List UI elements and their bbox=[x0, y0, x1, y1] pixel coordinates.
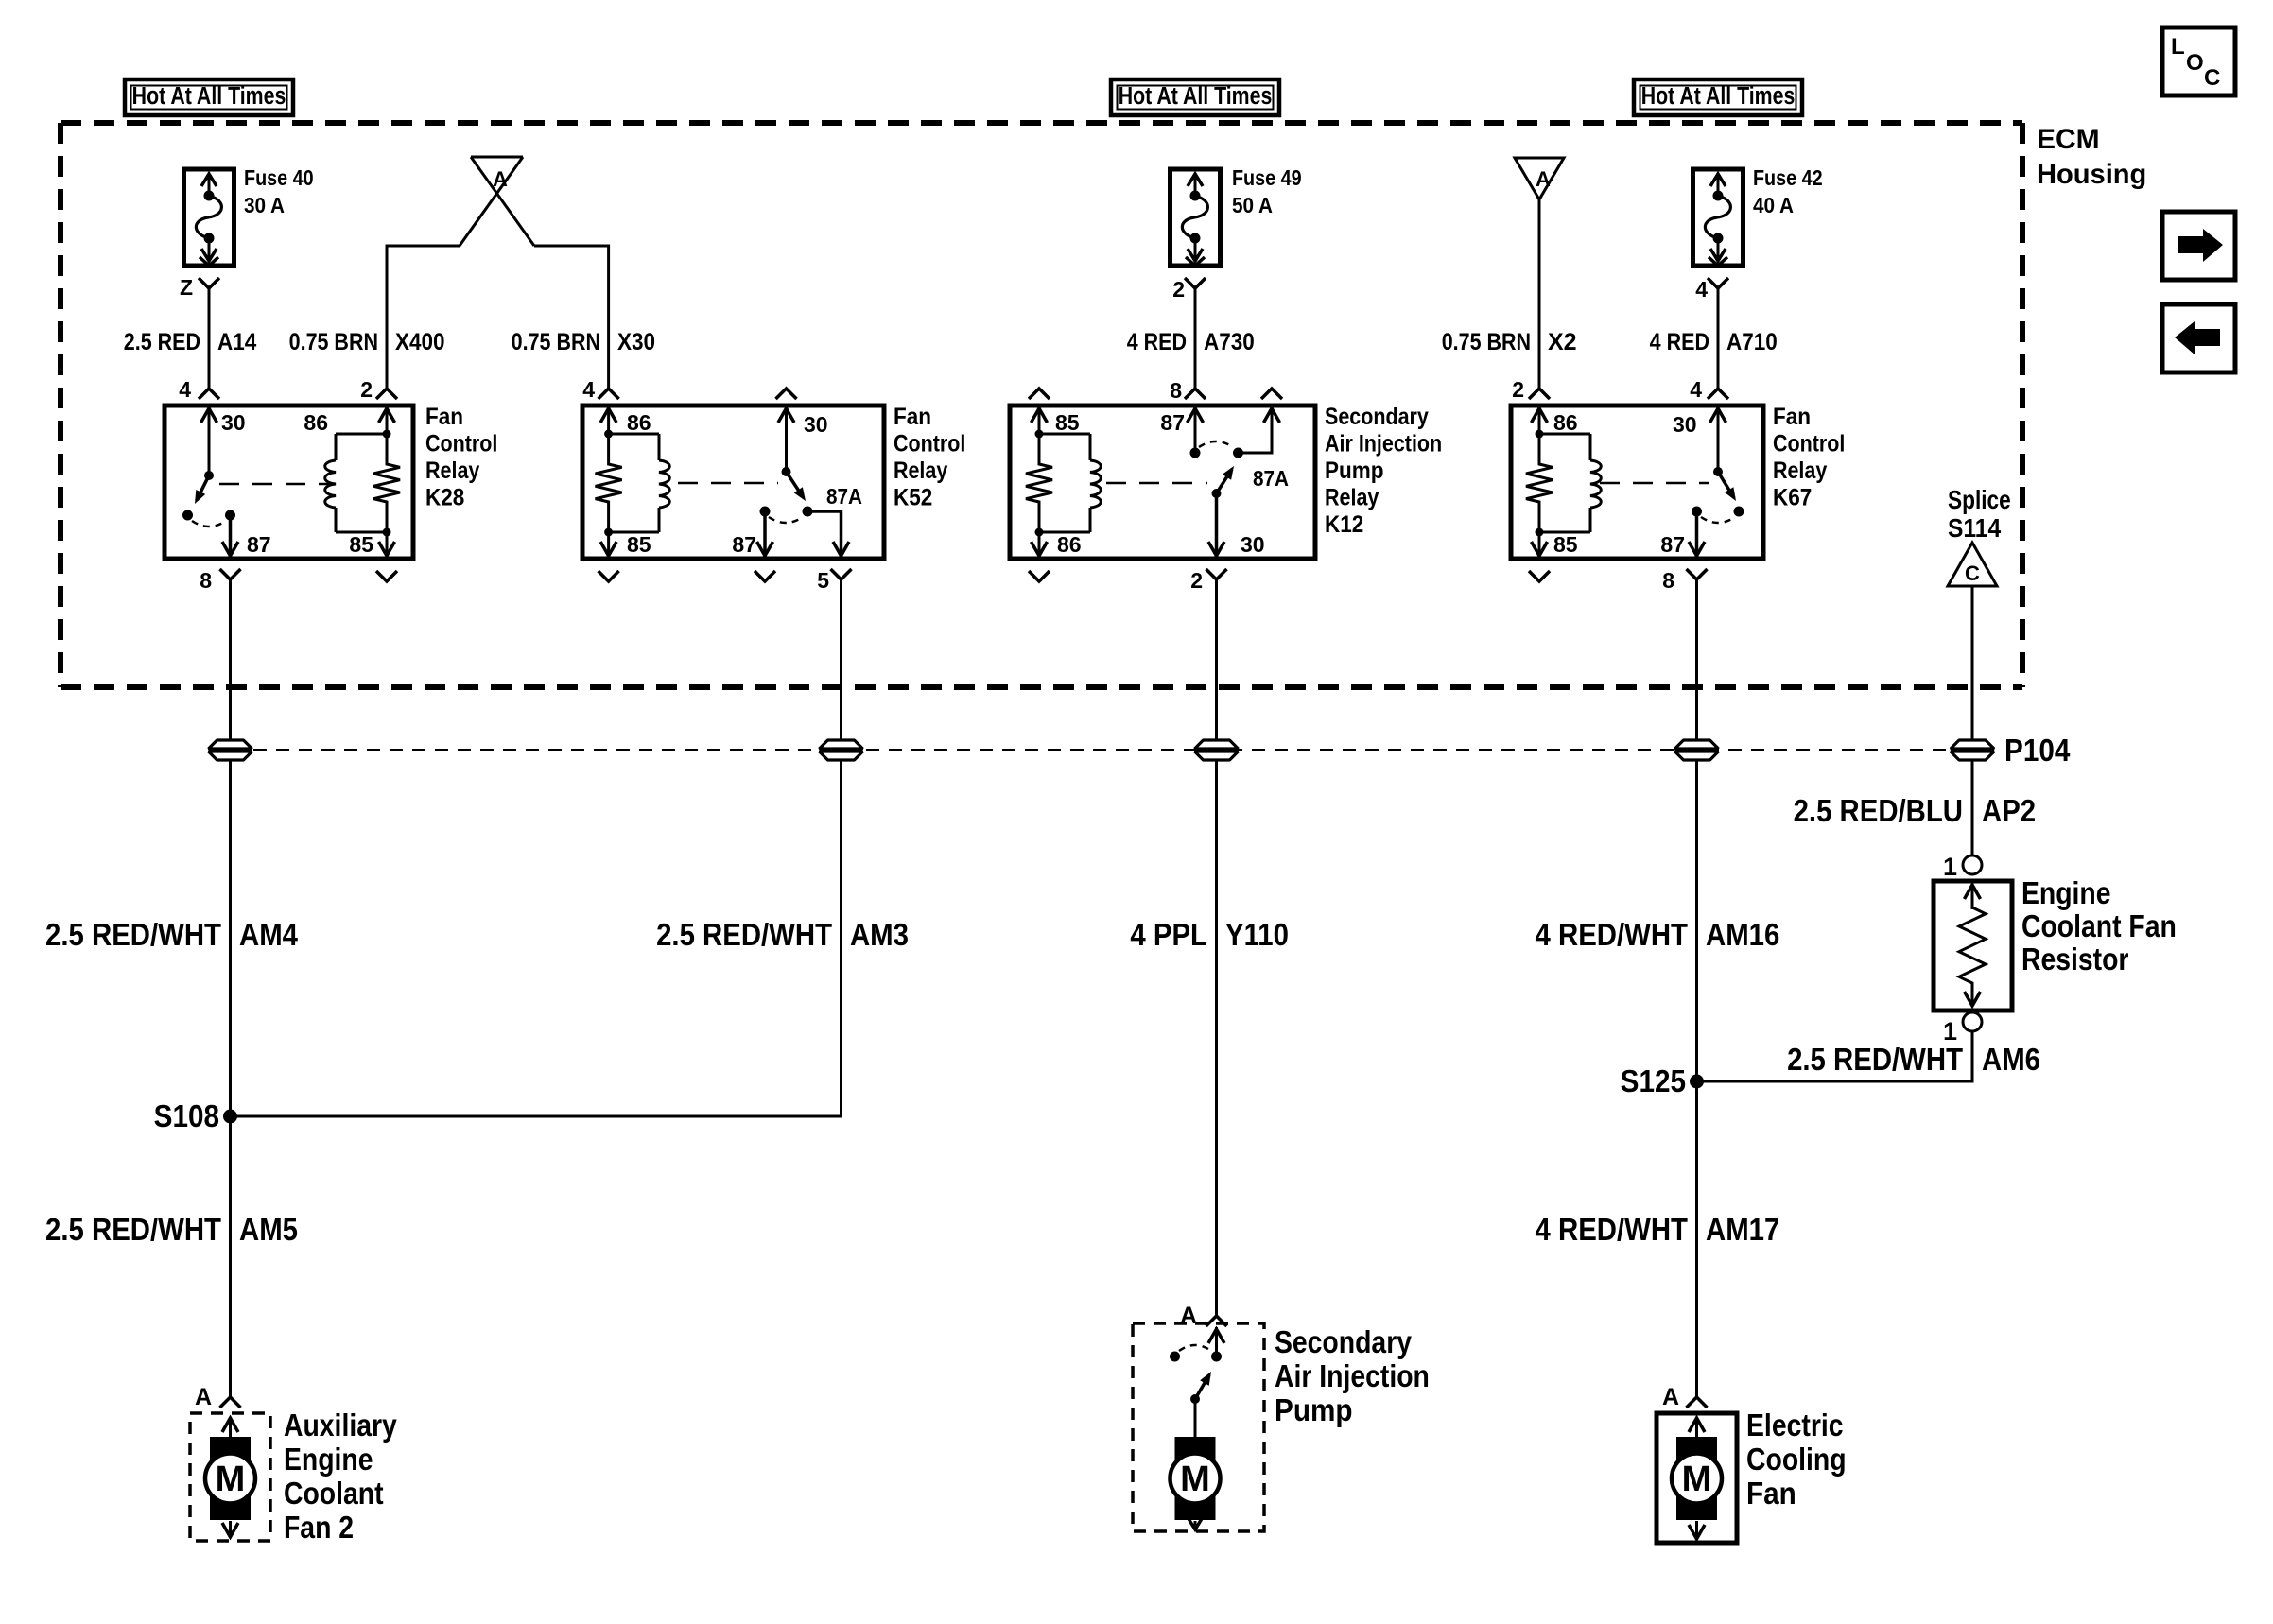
relay K28 coupling dashes bbox=[219, 483, 329, 486]
motor Auxiliary Engine Coolant Fan 2 terminal A bbox=[195, 1384, 241, 1410]
svg-text:Fan: Fan bbox=[1746, 1477, 1796, 1512]
svg-text:Pump: Pump bbox=[1275, 1393, 1352, 1428]
svg-text:Hot At All Times: Hot At All Times bbox=[132, 82, 286, 111]
Secondary Air Injection Pump terminal A bbox=[1180, 1303, 1227, 1329]
wire X30 branch to K52 pin 4 bbox=[534, 246, 609, 388]
svg-text:40 A: 40 A bbox=[1753, 193, 1794, 217]
relay K12 coupling dashes bbox=[1106, 482, 1207, 485]
svg-text:Y110: Y110 bbox=[1225, 917, 1289, 952]
svg-text:50 A: 50 A bbox=[1232, 193, 1273, 217]
splice triangle A (battery feed) with crossing leads bbox=[460, 157, 534, 246]
connector P104 terminal at x=243.5 bbox=[209, 740, 252, 749]
relay K52 switch arm bbox=[787, 472, 804, 498]
svg-text:M: M bbox=[1682, 1460, 1712, 1499]
svg-text:A730: A730 bbox=[1204, 329, 1255, 355]
relay K52 contact 87A output to pin 5 bbox=[807, 484, 862, 559]
connector P104 terminal at x=2086 bbox=[1951, 740, 1994, 749]
relay K28 coil 86 input bbox=[304, 406, 394, 439]
svg-text:87: 87 bbox=[1660, 532, 1685, 557]
relay K67 switch pin 30 bbox=[1673, 406, 1726, 476]
wire X2 to K67 pin 2 bbox=[1538, 199, 1541, 388]
svg-text:M: M bbox=[216, 1460, 246, 1499]
svg-text:AM4: AM4 bbox=[239, 917, 299, 952]
motor Auxiliary Engine Coolant Fan 2 name bbox=[284, 1408, 397, 1546]
svg-text:85: 85 bbox=[1553, 532, 1578, 557]
svg-text:A: A bbox=[1180, 1303, 1197, 1329]
svg-text:Housing: Housing bbox=[2037, 159, 2146, 190]
svg-text:S108: S108 bbox=[154, 1099, 219, 1134]
svg-text:8: 8 bbox=[200, 568, 212, 593]
relay K12 87A link to top terminal bbox=[1239, 406, 1280, 453]
svg-text:Engine: Engine bbox=[2021, 875, 2111, 911]
LOC legend box bbox=[2162, 27, 2235, 95]
svg-text:A: A bbox=[1662, 1384, 1679, 1410]
relay K28 pin 2 terminal bbox=[360, 377, 397, 402]
Secondary Air Injection Pump internal switch bbox=[1170, 1327, 1224, 1404]
relay K12 contact 87 input bbox=[1160, 406, 1203, 458]
relay K28 pin 8 terminal bbox=[200, 568, 240, 593]
svg-text:AM16: AM16 bbox=[1706, 917, 1779, 952]
svg-text:87: 87 bbox=[247, 532, 271, 557]
svg-text:Relay: Relay bbox=[425, 457, 479, 483]
svg-text:P104: P104 bbox=[2004, 734, 2071, 769]
svg-text:C: C bbox=[1965, 561, 1980, 585]
svg-text:4 PPL: 4 PPL bbox=[1130, 917, 1207, 952]
relay K67 contact 87 output bbox=[1660, 511, 1705, 559]
svg-text:Control: Control bbox=[425, 430, 497, 457]
svg-text:30 A: 30 A bbox=[244, 193, 285, 217]
svg-text:M: M bbox=[1180, 1460, 1210, 1499]
svg-text:Auxiliary: Auxiliary bbox=[284, 1408, 397, 1443]
relay K67 Fan Control Relay box bbox=[1511, 406, 1763, 559]
relay K12 pin 8 terminal bbox=[1170, 378, 1206, 403]
svg-text:2.5 RED/WHT: 2.5 RED/WHT bbox=[1787, 1042, 1963, 1077]
relay K52 name label bbox=[894, 404, 965, 511]
relay K52 coupling dashes bbox=[678, 482, 778, 485]
wire S114 down to resistor bbox=[1971, 586, 1974, 855]
right arrow legend box bbox=[2162, 212, 2235, 280]
svg-text:87A: 87A bbox=[1253, 466, 1289, 491]
relay K67 coil 85 output bbox=[1532, 528, 1578, 560]
svg-text:AM5: AM5 bbox=[239, 1212, 298, 1247]
svg-text:30: 30 bbox=[1673, 412, 1697, 437]
svg-text:2.5 RED/WHT: 2.5 RED/WHT bbox=[45, 917, 221, 952]
left arrow legend box bbox=[2162, 304, 2235, 372]
svg-text:86: 86 bbox=[304, 410, 328, 435]
relay K28 Fan Control Relay box bbox=[165, 406, 413, 559]
relay K52 coil 85 output bbox=[600, 528, 651, 560]
svg-text:O: O bbox=[2186, 50, 2204, 76]
svg-text:ECM: ECM bbox=[2037, 124, 2100, 155]
svg-text:Air Injection: Air Injection bbox=[1325, 430, 1442, 457]
svg-text:Relay: Relay bbox=[1773, 457, 1827, 483]
svg-text:Control: Control bbox=[894, 430, 965, 457]
svg-text:85: 85 bbox=[1055, 410, 1080, 435]
svg-text:Fan: Fan bbox=[894, 404, 931, 430]
svg-text:Fan: Fan bbox=[1773, 404, 1811, 430]
relay K28 coil 85 output bbox=[349, 528, 394, 560]
relay K28 switch contacts bbox=[182, 510, 235, 527]
motor Auxiliary Engine Coolant Fan 2 bbox=[190, 1413, 270, 1541]
svg-text:S114: S114 bbox=[1948, 513, 2001, 544]
svg-text:Coolant: Coolant bbox=[284, 1476, 384, 1512]
svg-text:AM6: AM6 bbox=[1982, 1042, 2040, 1077]
relay K52 pin 30 terminal mark bbox=[776, 389, 797, 399]
relay K12 pin 87A terminal mark bbox=[1261, 389, 1282, 399]
fuse Fuse 49 50A bbox=[1171, 166, 1302, 302]
svg-text:Coolant Fan: Coolant Fan bbox=[2021, 908, 2177, 944]
Electric Cooling Fan terminal A bbox=[1662, 1384, 1708, 1410]
relay K67 pin 2 terminal bbox=[1512, 377, 1550, 402]
svg-text:A: A bbox=[1536, 167, 1551, 191]
relay K52 switch pin 30 bbox=[778, 406, 828, 476]
svg-text:5: 5 bbox=[817, 568, 829, 593]
svg-text:AM17: AM17 bbox=[1706, 1212, 1779, 1247]
svg-text:2.5 RED/WHT: 2.5 RED/WHT bbox=[656, 917, 832, 952]
svg-text:X2: X2 bbox=[1548, 329, 1577, 355]
svg-text:Air Injection: Air Injection bbox=[1275, 1358, 1430, 1394]
relay K12 switch pivot 30 bbox=[1208, 489, 1265, 559]
svg-text:Pump: Pump bbox=[1325, 458, 1383, 484]
svg-text:AM3: AM3 bbox=[850, 917, 909, 952]
Hot At All Times label box bbox=[1111, 79, 1279, 115]
svg-text:C: C bbox=[2204, 65, 2220, 91]
svg-text:X400: X400 bbox=[395, 329, 445, 355]
Secondary Air Injection Pump dashed box bbox=[1133, 1323, 1264, 1531]
Secondary Air Injection Pump name bbox=[1275, 1324, 1430, 1427]
fuse Fuse 42 40A bbox=[1693, 166, 1823, 302]
wire fuse42 to K67 pin 4 bbox=[1717, 288, 1720, 388]
svg-text:85: 85 bbox=[627, 532, 651, 557]
splice S108 bbox=[154, 1099, 237, 1134]
connector P104 terminal at x=1794.5 bbox=[1675, 740, 1719, 749]
relay K67 switch contacts bbox=[1692, 507, 1744, 524]
engine coolant fan resistor box bbox=[1934, 881, 2012, 1011]
relay K52 pin 85 terminal mark bbox=[599, 571, 619, 581]
relay K28 pin 85 terminal mark bbox=[376, 571, 397, 581]
relay K12 coil resistor bbox=[1026, 434, 1052, 532]
Hot At All Times label box bbox=[125, 79, 293, 115]
relay K67 pin 85 terminal mark bbox=[1529, 571, 1550, 581]
svg-text:85: 85 bbox=[349, 532, 373, 557]
relay K52 coil 86 input bbox=[600, 406, 651, 439]
svg-text:30: 30 bbox=[1241, 532, 1265, 557]
relay K28 contact 87 output bbox=[222, 515, 271, 559]
svg-text:AP2: AP2 bbox=[1982, 793, 2036, 828]
relay K67 pin 8 terminal bbox=[1662, 568, 1707, 593]
svg-text:Engine: Engine bbox=[284, 1442, 373, 1477]
relay K67 switch arm bbox=[1718, 472, 1734, 498]
relay K67 coil inductor loop bbox=[1539, 434, 1601, 532]
svg-text:K52: K52 bbox=[894, 484, 932, 510]
svg-text:86: 86 bbox=[1057, 532, 1082, 557]
svg-text:Fan 2: Fan 2 bbox=[284, 1510, 354, 1546]
relay K12 switch arm bbox=[1217, 469, 1232, 493]
svg-text:4: 4 bbox=[179, 377, 191, 402]
svg-text:2: 2 bbox=[1172, 277, 1185, 302]
Hot At All Times label box bbox=[1634, 79, 1802, 115]
relay K12 contact 87A bbox=[1199, 441, 1289, 491]
connector P104 dashed line bbox=[231, 749, 1972, 751]
svg-text:4 RED/WHT: 4 RED/WHT bbox=[1536, 1212, 1688, 1247]
relay K52 coil inductor loop bbox=[609, 434, 670, 532]
svg-text:1: 1 bbox=[1943, 1017, 1957, 1045]
wire resistor to S125 bbox=[1697, 1031, 1973, 1081]
svg-text:0.75 BRN: 0.75 BRN bbox=[512, 328, 600, 354]
splice S114 triangle C bbox=[1948, 543, 1997, 586]
engine coolant fan resistor terminal 1 top bbox=[1943, 853, 1982, 881]
svg-text:2: 2 bbox=[1190, 568, 1203, 593]
Electric Cooling Fan name bbox=[1746, 1408, 1847, 1511]
connector P104 terminal at x=1286.5 bbox=[1195, 740, 1239, 749]
svg-text:K12: K12 bbox=[1325, 511, 1363, 538]
svg-text:4: 4 bbox=[582, 377, 595, 402]
svg-text:Control: Control bbox=[1773, 430, 1845, 457]
svg-text:Fuse 42: Fuse 42 bbox=[1753, 166, 1823, 191]
svg-text:4 RED/WHT: 4 RED/WHT bbox=[1536, 917, 1688, 952]
wire fuse49 to K12 pin 8 bbox=[1194, 288, 1197, 388]
splice S125 bbox=[1621, 1064, 1704, 1099]
svg-text:2.5 RED/BLU: 2.5 RED/BLU bbox=[1794, 793, 1963, 828]
svg-text:0.75 BRN: 0.75 BRN bbox=[289, 328, 378, 354]
svg-text:Resistor: Resistor bbox=[2021, 942, 2129, 977]
wire K52 pin5 down to S108 bbox=[231, 579, 842, 1116]
relay K52 coil resistor bbox=[596, 434, 622, 532]
Secondary Air Injection Pump motor bbox=[1171, 1399, 1221, 1529]
splice S114 label bbox=[1948, 486, 2011, 544]
relay K52 switch contacts bbox=[760, 507, 813, 524]
svg-text:2.5 RED: 2.5 RED bbox=[124, 328, 200, 354]
svg-text:Z: Z bbox=[180, 275, 193, 300]
relay K28 switch pin 30 bbox=[201, 406, 246, 480]
relay K12 pin 86 terminal mark bbox=[1029, 571, 1050, 581]
relay K52 contact 87 (no connect) bbox=[732, 511, 772, 559]
relay K28 name label bbox=[425, 404, 497, 511]
relay K12 coil 86 output bbox=[1032, 528, 1082, 560]
svg-text:Fan: Fan bbox=[425, 404, 463, 430]
svg-text:Hot At All Times: Hot At All Times bbox=[1119, 82, 1273, 111]
fuse Fuse 40 30A bbox=[180, 166, 314, 300]
relay K12 coil inductor loop bbox=[1039, 434, 1101, 532]
relay K67 coil 86 input bbox=[1532, 406, 1578, 439]
svg-text:2: 2 bbox=[360, 377, 373, 402]
relay K28 pin 4 terminal bbox=[179, 377, 219, 402]
wire K12 pin2 down to SAI pump bbox=[1215, 579, 1218, 1316]
relay K52 pin 4 terminal bbox=[582, 377, 618, 402]
relay K28 coil inductor loop bbox=[325, 434, 387, 532]
connector P104 terminal at x=889.5 bbox=[820, 740, 863, 749]
svg-text:Splice: Splice bbox=[1948, 486, 2011, 515]
svg-text:8: 8 bbox=[1170, 378, 1182, 403]
svg-text:Hot At All Times: Hot At All Times bbox=[1641, 82, 1796, 111]
svg-text:Fuse 40: Fuse 40 bbox=[244, 166, 314, 191]
svg-text:Fuse 49: Fuse 49 bbox=[1232, 166, 1302, 191]
relay K12 pin 85 terminal mark bbox=[1029, 389, 1050, 399]
engine coolant fan resistor name bbox=[2021, 875, 2177, 977]
relay K67 coupling dashes bbox=[1600, 482, 1709, 485]
wire fuse40 to K28 pin 4 bbox=[208, 288, 211, 388]
svg-text:A14: A14 bbox=[217, 329, 257, 355]
svg-text:S125: S125 bbox=[1621, 1064, 1686, 1099]
svg-text:30: 30 bbox=[804, 412, 828, 437]
svg-text:4 RED: 4 RED bbox=[1650, 328, 1709, 354]
relay K52 pin 5 terminal bbox=[817, 568, 851, 593]
relay K67 name label bbox=[1773, 404, 1845, 511]
svg-text:4 RED: 4 RED bbox=[1127, 328, 1187, 354]
svg-text:87A: 87A bbox=[826, 484, 862, 509]
Electric Cooling Fan motor bbox=[1657, 1413, 1737, 1543]
svg-text:2.5 RED/WHT: 2.5 RED/WHT bbox=[45, 1212, 221, 1247]
svg-text:Relay: Relay bbox=[894, 457, 947, 483]
svg-text:4: 4 bbox=[1695, 277, 1708, 302]
svg-text:Electric: Electric bbox=[1746, 1408, 1844, 1443]
relay K28 switch arm bbox=[197, 475, 209, 500]
relay K12 coil 85 input bbox=[1032, 406, 1080, 439]
wire K28 pin8 down to Aux fan motor bbox=[229, 579, 232, 1397]
relay K12 Secondary Air Injection Pump Relay box bbox=[1010, 406, 1315, 559]
relay K12 name label bbox=[1325, 403, 1442, 538]
engine coolant fan resistor terminal 1 bottom bbox=[1943, 1012, 1982, 1045]
relay K52 pin 87 terminal mark bbox=[755, 571, 775, 581]
svg-text:8: 8 bbox=[1662, 568, 1674, 593]
svg-text:A: A bbox=[195, 1384, 212, 1410]
svg-text:87: 87 bbox=[732, 532, 756, 557]
wire K67 pin8 down to cooling fan bbox=[1695, 579, 1698, 1397]
svg-text:L: L bbox=[2171, 34, 2185, 60]
svg-text:1: 1 bbox=[1943, 853, 1957, 881]
svg-text:4: 4 bbox=[1690, 377, 1702, 402]
svg-text:2: 2 bbox=[1512, 377, 1524, 402]
svg-text:0.75 BRN: 0.75 BRN bbox=[1442, 328, 1531, 354]
svg-text:Cooling: Cooling bbox=[1746, 1442, 1847, 1477]
relay K12 pin 2 terminal bbox=[1190, 568, 1226, 593]
relay K28 coil resistor bbox=[373, 434, 400, 532]
svg-text:86: 86 bbox=[1553, 410, 1578, 435]
svg-text:X30: X30 bbox=[617, 329, 655, 355]
svg-text:87: 87 bbox=[1160, 410, 1185, 435]
svg-text:Relay: Relay bbox=[1325, 484, 1379, 510]
ECM Housing dashed enclosure bbox=[61, 123, 2146, 687]
svg-text:K67: K67 bbox=[1773, 484, 1812, 510]
relay K67 pin 4 terminal bbox=[1690, 377, 1728, 402]
svg-text:Secondary: Secondary bbox=[1275, 1324, 1412, 1360]
relay K52 Fan Control Relay box bbox=[582, 406, 884, 559]
svg-text:A710: A710 bbox=[1726, 329, 1778, 355]
splice triangle A (feed to K67 coil) bbox=[1515, 158, 1564, 199]
svg-text:A: A bbox=[493, 167, 508, 191]
wire X400 branch to K28 pin 2 bbox=[387, 246, 460, 388]
svg-text:86: 86 bbox=[627, 410, 651, 435]
svg-text:30: 30 bbox=[221, 410, 246, 435]
relay K67 coil resistor bbox=[1526, 434, 1553, 532]
svg-text:Secondary: Secondary bbox=[1325, 403, 1429, 429]
svg-text:K28: K28 bbox=[425, 484, 464, 510]
